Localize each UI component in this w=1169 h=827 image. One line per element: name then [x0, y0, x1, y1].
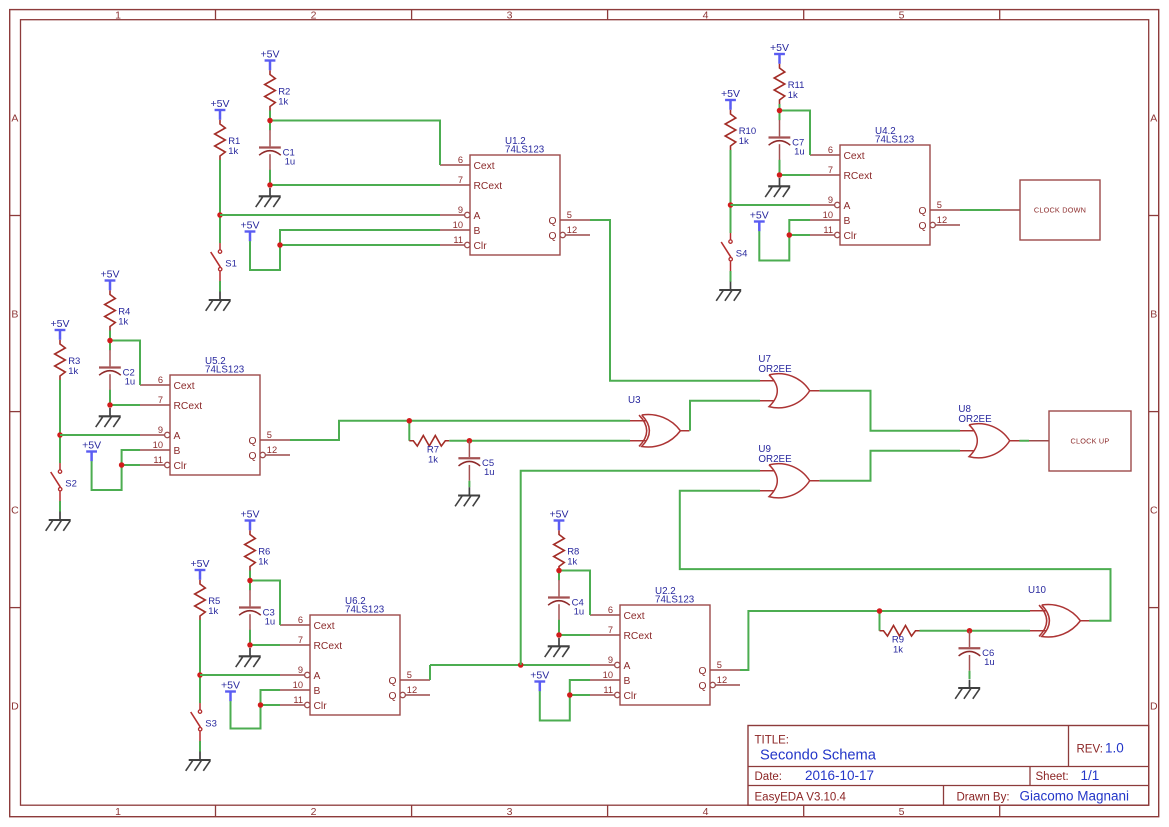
svg-text:Sheet:: Sheet: [1036, 771, 1069, 783]
svg-text:5: 5 [899, 806, 905, 818]
svg-text:B: B [314, 686, 321, 697]
svg-text:Cext: Cext [474, 161, 495, 172]
svg-text:5: 5 [407, 670, 412, 680]
svg-text:1.0: 1.0 [1105, 741, 1124, 756]
svg-text:A: A [1150, 113, 1157, 125]
svg-text:9: 9 [458, 205, 463, 215]
svg-text:5: 5 [717, 660, 722, 670]
svg-text:1u: 1u [125, 376, 136, 387]
svg-text:Clr: Clr [314, 701, 328, 712]
svg-text:10: 10 [153, 440, 163, 450]
svg-text:10: 10 [293, 680, 303, 690]
svg-text:Cext: Cext [174, 381, 195, 392]
svg-text:5: 5 [267, 430, 272, 440]
svg-text:Q: Q [548, 231, 556, 242]
svg-text:D: D [11, 701, 19, 713]
svg-text:74LS123: 74LS123 [875, 135, 915, 146]
svg-text:+5V: +5V [721, 88, 740, 100]
svg-text:5: 5 [899, 10, 905, 22]
svg-text:RCext: RCext [314, 641, 343, 652]
svg-text:12: 12 [937, 215, 947, 225]
svg-text:RCext: RCext [844, 171, 873, 182]
svg-text:+5V: +5V [550, 509, 569, 521]
svg-text:Q: Q [388, 676, 396, 687]
svg-text:B: B [624, 676, 631, 687]
svg-text:A: A [174, 431, 181, 442]
svg-text:Giacomo Magnani: Giacomo Magnani [1020, 788, 1130, 803]
svg-text:7: 7 [608, 625, 613, 635]
svg-text:1k: 1k [567, 556, 577, 567]
svg-text:A: A [624, 661, 631, 672]
svg-text:EasyEDA V3.10.4: EasyEDA V3.10.4 [755, 791, 847, 803]
svg-text:9: 9 [828, 195, 833, 205]
svg-text:6: 6 [828, 145, 833, 155]
svg-text:C: C [1150, 505, 1158, 517]
svg-text:7: 7 [458, 175, 463, 185]
svg-text:B: B [11, 309, 18, 321]
svg-text:Clr: Clr [624, 691, 638, 702]
svg-text:1u: 1u [794, 146, 805, 157]
svg-text:RCext: RCext [174, 401, 203, 412]
svg-text:4: 4 [703, 806, 709, 818]
svg-text:+5V: +5V [241, 509, 260, 521]
svg-text:12: 12 [567, 225, 577, 235]
svg-text:Q: Q [388, 691, 396, 702]
svg-text:11: 11 [453, 235, 463, 245]
svg-text:Q: Q [918, 221, 926, 232]
svg-text:Clr: Clr [174, 461, 188, 472]
svg-text:6: 6 [158, 375, 163, 385]
svg-text:1u: 1u [574, 606, 585, 617]
svg-text:1k: 1k [788, 90, 798, 101]
svg-text:7: 7 [298, 635, 303, 645]
svg-text:B: B [844, 216, 851, 227]
svg-text:5: 5 [937, 200, 942, 210]
svg-text:4: 4 [703, 10, 709, 22]
svg-text:+5V: +5V [82, 440, 101, 452]
svg-text:1k: 1k [208, 606, 218, 617]
svg-text:RCext: RCext [624, 631, 653, 642]
svg-text:S3: S3 [205, 719, 217, 730]
svg-text:U10: U10 [1028, 585, 1047, 596]
svg-text:B: B [1150, 309, 1157, 321]
svg-text:B: B [174, 446, 181, 457]
svg-text:+5V: +5V [101, 269, 120, 281]
svg-text:+5V: +5V [51, 318, 70, 330]
svg-text:+5V: +5V [261, 49, 280, 61]
svg-text:9: 9 [158, 425, 163, 435]
svg-text:1: 1 [115, 10, 121, 22]
svg-text:6: 6 [608, 605, 613, 615]
svg-text:10: 10 [453, 220, 463, 230]
svg-text:+5V: +5V [530, 670, 549, 682]
svg-text:10: 10 [603, 670, 613, 680]
svg-text:Clr: Clr [844, 231, 858, 242]
svg-text:+5V: +5V [241, 220, 260, 232]
svg-text:2: 2 [311, 806, 317, 818]
svg-text:1k: 1k [893, 644, 903, 655]
svg-text:+5V: +5V [211, 98, 230, 110]
svg-text:74LS123: 74LS123 [655, 595, 695, 606]
svg-text:S2: S2 [65, 479, 77, 490]
svg-text:1k: 1k [68, 366, 78, 377]
svg-text:1k: 1k [278, 96, 288, 107]
svg-text:+5V: +5V [191, 558, 210, 570]
svg-text:RCext: RCext [474, 181, 503, 192]
svg-text:A: A [11, 113, 18, 125]
svg-text:B: B [474, 226, 481, 237]
svg-text:Q: Q [698, 681, 706, 692]
svg-text:2016-10-17: 2016-10-17 [805, 768, 874, 783]
svg-text:A: A [844, 201, 851, 212]
svg-text:3: 3 [507, 806, 513, 818]
svg-text:1k: 1k [428, 454, 438, 465]
svg-text:7: 7 [828, 165, 833, 175]
svg-text:Cext: Cext [314, 621, 335, 632]
svg-text:Q: Q [548, 216, 556, 227]
svg-text:1/1: 1/1 [1081, 768, 1100, 783]
svg-text:CLOCK UP: CLOCK UP [1071, 437, 1110, 446]
svg-text:Secondo Schema: Secondo Schema [760, 748, 877, 764]
svg-text:1u: 1u [285, 156, 296, 167]
svg-text:74LS123: 74LS123 [505, 145, 545, 156]
svg-text:Date:: Date: [755, 771, 783, 783]
svg-text:+5V: +5V [221, 680, 240, 692]
svg-text:Q: Q [248, 436, 256, 447]
svg-text:9: 9 [608, 655, 613, 665]
svg-text:S1: S1 [225, 259, 237, 270]
svg-text:S4: S4 [736, 249, 748, 260]
svg-text:7: 7 [158, 395, 163, 405]
svg-text:1k: 1k [258, 556, 268, 567]
svg-text:U3: U3 [628, 395, 641, 406]
svg-text:Clr: Clr [474, 241, 488, 252]
svg-text:Q: Q [698, 666, 706, 677]
svg-text:1k: 1k [228, 146, 238, 157]
svg-text:REV:: REV: [1077, 744, 1103, 756]
svg-text:12: 12 [717, 675, 727, 685]
svg-text:1k: 1k [739, 136, 749, 147]
svg-text:11: 11 [603, 685, 613, 695]
svg-text:+5V: +5V [750, 210, 769, 222]
svg-text:10: 10 [823, 210, 833, 220]
svg-text:6: 6 [458, 155, 463, 165]
svg-text:3: 3 [507, 10, 513, 22]
svg-text:D: D [1150, 701, 1158, 713]
svg-text:1u: 1u [265, 616, 276, 627]
svg-text:Drawn By:: Drawn By: [957, 791, 1010, 803]
svg-text:11: 11 [153, 455, 163, 465]
svg-text:1u: 1u [484, 467, 495, 478]
svg-text:1: 1 [115, 806, 121, 818]
svg-text:TITLE:: TITLE: [755, 734, 790, 746]
svg-text:Cext: Cext [624, 611, 645, 622]
svg-text:74LS123: 74LS123 [345, 605, 385, 616]
svg-text:11: 11 [823, 225, 833, 235]
svg-text:+5V: +5V [770, 42, 789, 54]
svg-text:Q: Q [918, 206, 926, 217]
svg-text:A: A [314, 671, 321, 682]
svg-text:5: 5 [567, 210, 572, 220]
svg-text:6: 6 [298, 615, 303, 625]
svg-text:CLOCK DOWN: CLOCK DOWN [1034, 206, 1086, 215]
svg-text:C: C [11, 505, 19, 517]
svg-text:1u: 1u [984, 657, 995, 668]
svg-text:A: A [474, 211, 481, 222]
svg-text:Q: Q [248, 451, 256, 462]
svg-text:9: 9 [298, 665, 303, 675]
svg-text:Cext: Cext [844, 151, 865, 162]
svg-text:2: 2 [311, 10, 317, 22]
svg-text:74LS123: 74LS123 [205, 365, 245, 376]
svg-text:12: 12 [407, 685, 417, 695]
svg-text:1k: 1k [118, 316, 128, 327]
svg-text:12: 12 [267, 445, 277, 455]
svg-text:11: 11 [293, 695, 303, 705]
